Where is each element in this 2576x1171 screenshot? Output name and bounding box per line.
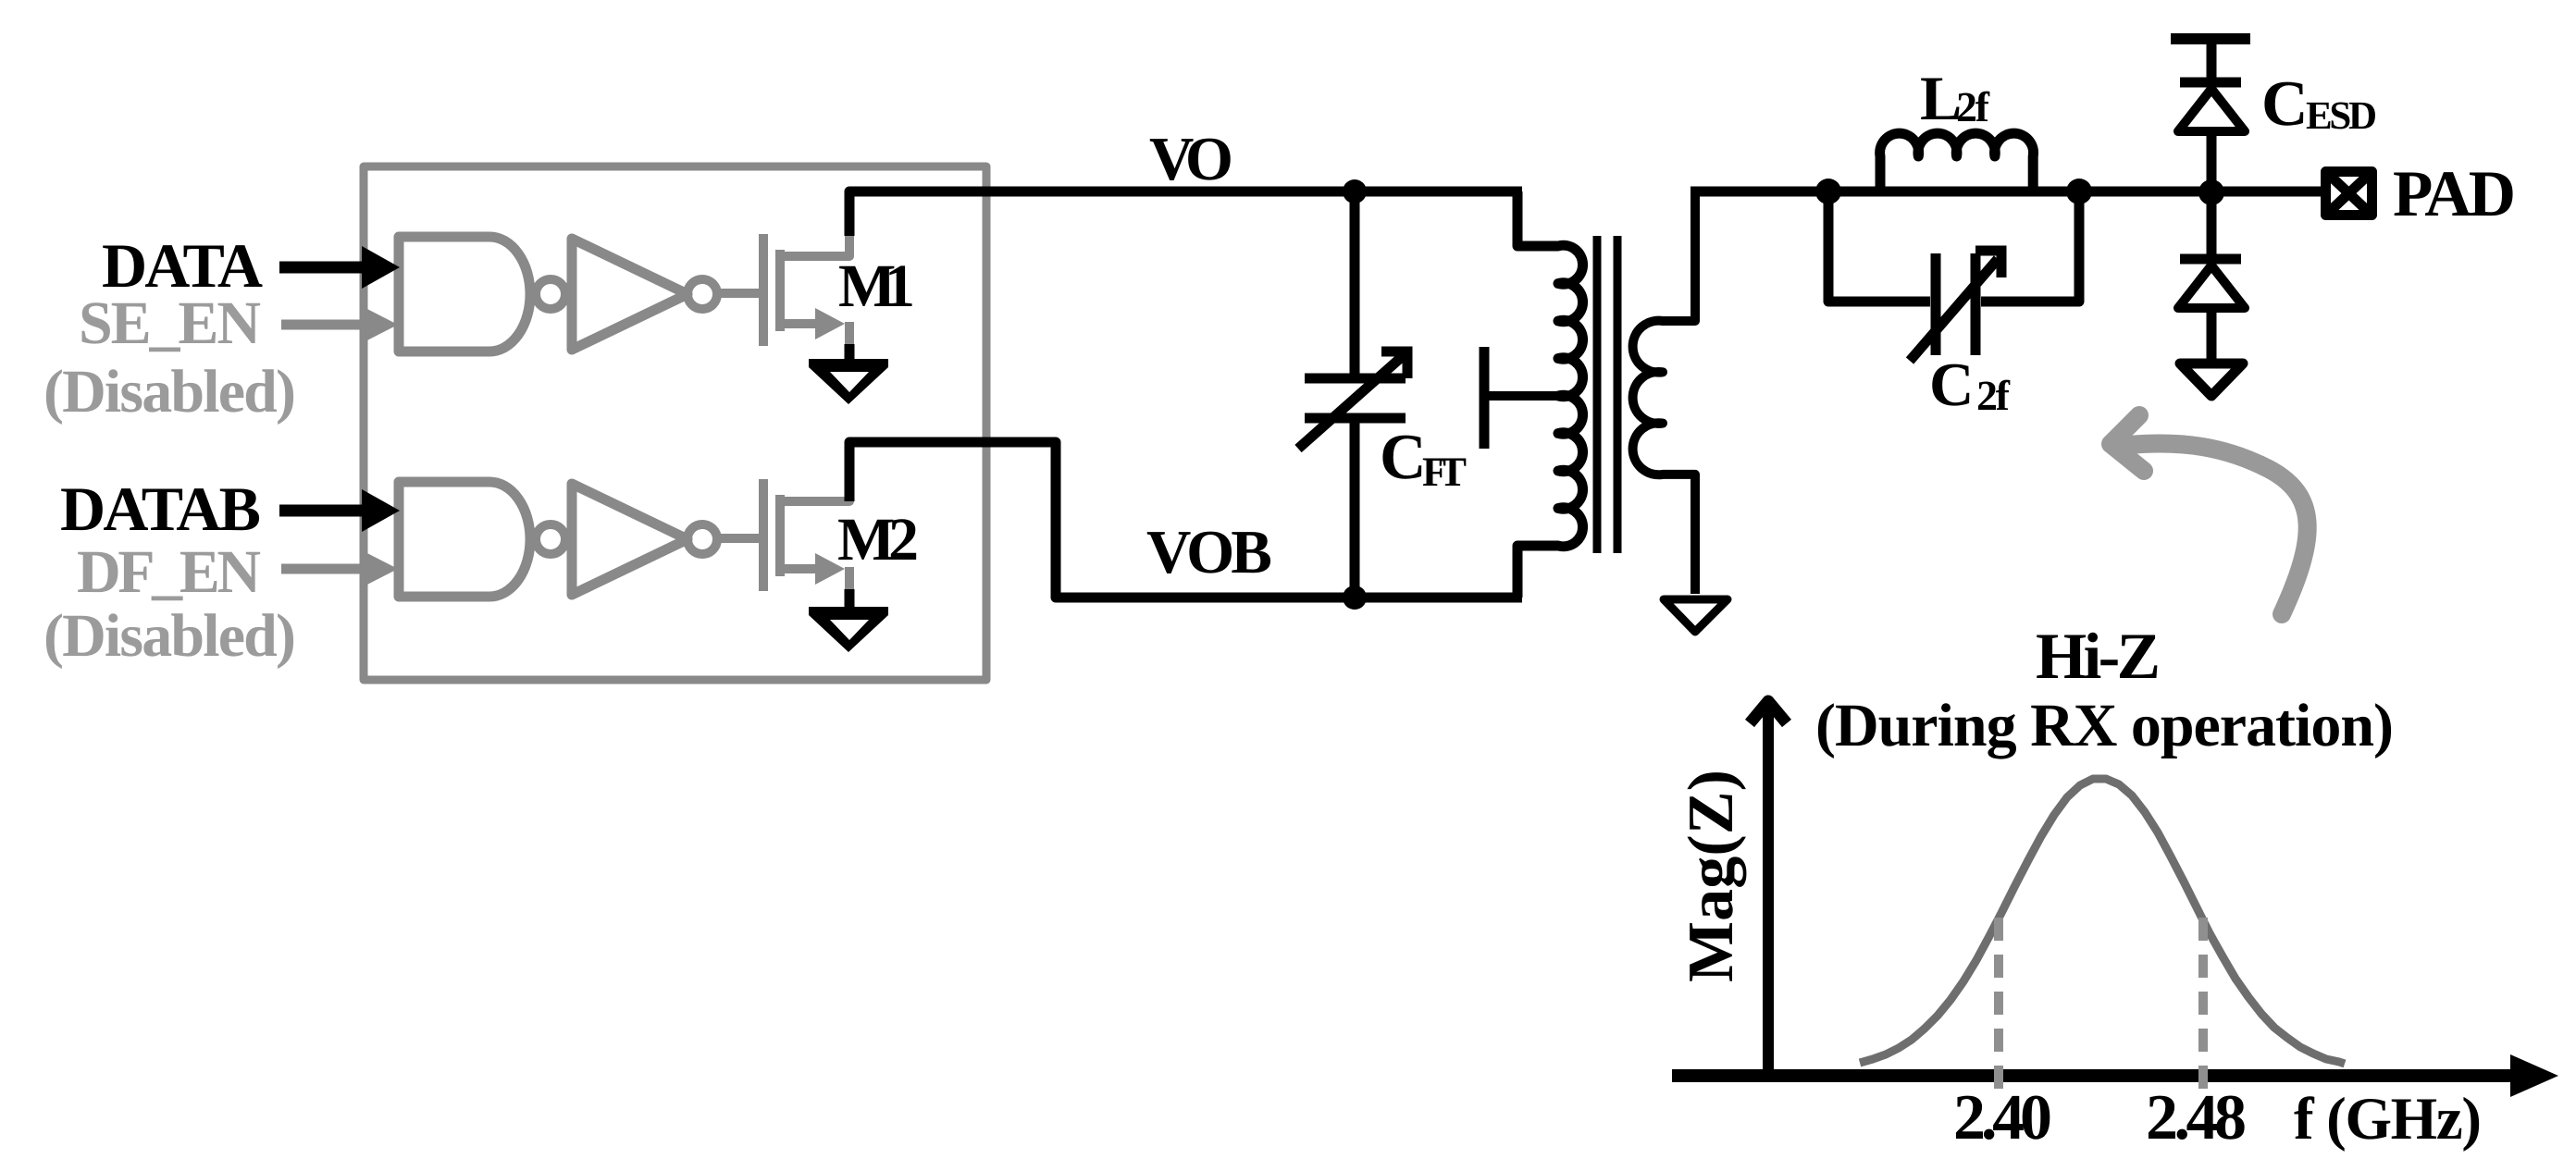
svg-text:2.48: 2.48 bbox=[2146, 1082, 2247, 1153]
svg-text:C: C bbox=[1929, 351, 1974, 419]
svg-text:2f: 2f bbox=[1956, 83, 1990, 130]
svg-text:Mag(Z): Mag(Z) bbox=[1676, 770, 1747, 982]
svg-text:M2: M2 bbox=[837, 506, 919, 573]
svg-text:M1: M1 bbox=[838, 253, 915, 320]
svg-text:(During RX operation): (During RX operation) bbox=[1815, 692, 2394, 759]
svg-text:VO: VO bbox=[1149, 125, 1233, 193]
svg-text:DATAB: DATAB bbox=[60, 474, 261, 544]
svg-text:(Disabled): (Disabled) bbox=[43, 358, 296, 425]
svg-text:ESD: ESD bbox=[2306, 94, 2377, 138]
svg-text:C: C bbox=[1380, 422, 1427, 493]
svg-text:DF_EN: DF_EN bbox=[77, 538, 261, 606]
svg-text:Hi-Z: Hi-Z bbox=[2036, 621, 2161, 693]
svg-text:VOB: VOB bbox=[1146, 518, 1272, 586]
svg-text:FT: FT bbox=[1422, 449, 1467, 495]
svg-text:PAD: PAD bbox=[2393, 158, 2516, 230]
svg-text:2.40: 2.40 bbox=[1953, 1082, 2052, 1153]
svg-text:f (GHz): f (GHz) bbox=[2294, 1086, 2482, 1153]
svg-text:(Disabled): (Disabled) bbox=[43, 602, 296, 670]
svg-text:2f: 2f bbox=[1976, 372, 2011, 419]
svg-text:SE_EN: SE_EN bbox=[79, 290, 261, 357]
svg-text:C: C bbox=[2261, 68, 2309, 140]
